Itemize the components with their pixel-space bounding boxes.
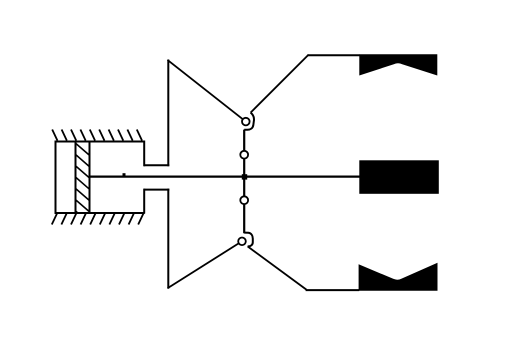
fixed frame top hatching — [52, 130, 142, 141]
upper link hole — [240, 151, 248, 159]
upper right diagonal arm — [251, 55, 309, 113]
lower link hole — [240, 196, 248, 204]
frame slot upper step — [144, 164, 169, 166]
rod bump dot — [123, 173, 126, 176]
push rod — [90, 176, 360, 178]
middle pole piece (black rectangle) — [359, 160, 439, 194]
fixed frame housing outline — [55, 141, 145, 214]
frame slot lower step — [144, 189, 169, 191]
lower pivot circle — [238, 238, 246, 246]
upper pole piece (black, notched below) — [359, 54, 437, 75]
lever link vertical bar — [243, 130, 245, 234]
junction dot — [242, 174, 247, 179]
lower pole piece (black, notched above) — [359, 263, 438, 291]
piezo element hatch lines — [70, 138, 96, 228]
lower right diagonal arm — [248, 246, 307, 289]
funnel lower left edge — [167, 189, 169, 289]
bottom connecting line to lower pole — [306, 289, 360, 291]
upper left diagonal arm — [168, 60, 246, 122]
top connecting line to upper pole — [308, 54, 360, 56]
lower left diagonal arm — [168, 241, 243, 288]
piezo element (hatched bar) — [76, 141, 90, 214]
funnel upper left edge — [167, 60, 169, 167]
upper pivot circle — [242, 118, 250, 126]
lower hook around pivot — [244, 233, 253, 247]
fixed frame bottom hatching — [52, 214, 144, 225]
upper hook around pivot — [244, 113, 254, 130]
